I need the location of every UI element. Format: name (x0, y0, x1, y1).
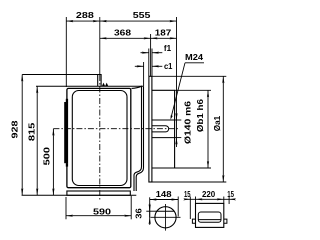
dimension c1 (143, 62, 145, 86)
dimension 555 (176, 17, 178, 147)
vent plug (102, 83, 108, 86)
svg-text:368: 368 (114, 28, 132, 37)
svg-text:928: 928 (11, 120, 20, 139)
horizontal centerline (53, 128, 178, 130)
vertical centerline (99, 17, 101, 75)
svg-text:Ø140 m6: Ø140 m6 (184, 100, 193, 144)
svg-text:590: 590 (93, 207, 112, 216)
shaft end circle (155, 207, 176, 228)
dimension 187 (151, 37, 177, 39)
housing top edge line (36, 85, 144, 87)
svg-text:187: 187 (155, 28, 172, 37)
box tray (198, 212, 221, 222)
output flange disc (149, 76, 152, 182)
svg-text:Øa1: Øa1 (213, 115, 222, 131)
dimension Db1 (175, 89, 211, 91)
svg-text:500: 500 (42, 146, 51, 165)
svg-text:15: 15 (184, 190, 191, 199)
dimension 36 (146, 210, 157, 212)
hollow shaft bore (152, 119, 175, 121)
M24 leader (185, 62, 204, 64)
stub top reference line (22, 74, 98, 76)
top stub (98, 75, 101, 87)
svg-text:c1: c1 (164, 62, 173, 71)
svg-text:815: 815 (27, 122, 36, 141)
bell housing face (136, 86, 143, 191)
dimension 500 (52, 129, 54, 196)
ground line (22, 194, 137, 196)
dimension D140 (175, 119, 182, 121)
keyway chord (157, 210, 174, 212)
dimension 928 (21, 75, 23, 196)
centering spigot cylinder (152, 90, 175, 168)
box left tab (192, 219, 195, 223)
dimension f1 (148, 49, 150, 77)
svg-text:36: 36 (135, 208, 144, 219)
dimension 148 (149, 197, 151, 217)
base plate (67, 191, 130, 195)
dimension 288 (65, 17, 67, 87)
svg-text:Øb1 h6: Øb1 h6 (196, 98, 205, 132)
dimension 15-220-15 (189, 197, 191, 220)
svg-text:288: 288 (76, 11, 95, 20)
terminal box (196, 203, 224, 227)
keyway slot (152, 126, 169, 132)
gear housing body (67, 88, 131, 187)
svg-text:M24: M24 (185, 53, 204, 62)
dimension Da1 (152, 75, 226, 77)
bell housing outer (132, 86, 142, 191)
svg-text:f1: f1 (164, 44, 172, 53)
svg-text:220: 220 (202, 190, 216, 199)
dimension 590 (65, 197, 67, 219)
box right tab (224, 219, 227, 223)
housing inner contour (72, 91, 127, 186)
dimension 368 (150, 34, 152, 76)
circle crosshair (151, 216, 181, 218)
dimension 815 (36, 86, 38, 195)
svg-text:555: 555 (133, 11, 151, 20)
side cover plate (64, 99, 68, 167)
svg-text:148: 148 (156, 190, 173, 199)
svg-text:15: 15 (227, 190, 234, 199)
